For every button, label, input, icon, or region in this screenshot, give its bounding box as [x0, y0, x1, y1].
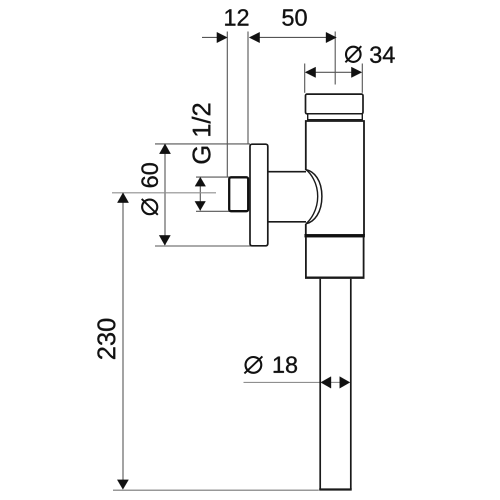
extension line from flange left face (x=248.7) — [247, 32, 249, 144]
dimension Ø18 label — [244, 356, 297, 373]
dimension 12 line with outside arrow — [202, 32, 227, 42]
extension line from nut left face (x=227) — [226, 32, 228, 177]
dimension 50 label — [282, 9, 306, 26]
inlet housing — [268, 172, 306, 222]
dimension Ø60 label (rotated) — [141, 163, 158, 215]
cartridge dome inner curve — [306, 170, 318, 224]
dimension Ø60 extension lines — [155, 144, 251, 246]
valve upper body — [306, 121, 364, 235]
dimension Ø18 arrows — [321, 377, 350, 389]
dimension 230 line with arrows — [117, 193, 128, 490]
dimension 12 label — [225, 9, 248, 25]
extension line valve centerline (x=335.2) — [334, 32, 336, 85]
outlet pipe — [319, 279, 352, 490]
spindle axis leader line — [112, 192, 216, 194]
connection nut G1/2 — [229, 177, 248, 211]
dimension 230 label (rotated) — [97, 319, 115, 359]
dimension 50 line with arrows — [249, 32, 336, 42]
valve lower body — [305, 237, 365, 277]
cap ring band — [308, 114, 363, 120]
dimension G1/2 extension lines at nut faces — [196, 177, 230, 211]
dimension Ø34 line with arrows — [305, 67, 362, 77]
push button cap — [306, 94, 364, 114]
bottom reference leader line — [113, 489, 319, 491]
cartridge dome outer curve — [306, 170, 322, 224]
dimension Ø34 label — [345, 46, 394, 63]
wall flange — [250, 144, 268, 246]
dimension Ø34 extension lines — [305, 64, 363, 93]
dimension G 1/2 label (rotated) — [192, 104, 211, 164]
dimension G1/2 arrows (vertical) — [195, 177, 206, 210]
dimension Ø18 leader line — [244, 381, 341, 383]
dimension Ø60 line with arrows — [159, 144, 170, 245]
joint ring (thick) — [305, 234, 365, 237]
